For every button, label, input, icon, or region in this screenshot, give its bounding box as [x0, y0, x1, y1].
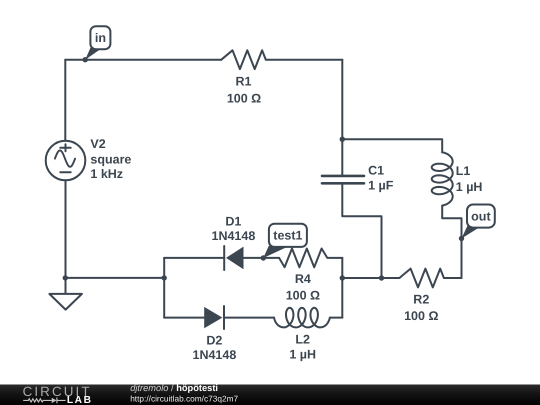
svg-text:LAB: LAB	[67, 395, 93, 405]
svg-text:1 µF: 1 µF	[368, 179, 394, 193]
svg-text:100 Ω: 100 Ω	[404, 309, 438, 323]
svg-text:out: out	[471, 209, 491, 223]
svg-text:1N4148: 1N4148	[212, 229, 256, 243]
svg-text:R4: R4	[295, 272, 311, 286]
svg-text:http://circuitlab.com/c73q2m7: http://circuitlab.com/c73q2m7	[130, 394, 238, 404]
svg-text:1 µH: 1 µH	[456, 180, 483, 194]
svg-text:100 Ω: 100 Ω	[227, 91, 261, 105]
svg-text:1N4148: 1N4148	[193, 348, 237, 362]
svg-text:D2: D2	[206, 333, 222, 347]
svg-text:L2: L2	[295, 333, 310, 347]
svg-text:test1: test1	[273, 229, 302, 243]
svg-text:L1: L1	[456, 164, 471, 178]
svg-text:1 kHz: 1 kHz	[90, 167, 123, 181]
svg-text:1 µH: 1 µH	[289, 348, 316, 362]
svg-text:R1: R1	[236, 75, 252, 89]
svg-text:square: square	[90, 153, 131, 167]
svg-text:100 Ω: 100 Ω	[286, 289, 320, 303]
svg-text:djtremolo / höpötesti: djtremolo / höpötesti	[130, 383, 218, 393]
svg-text:R2: R2	[413, 293, 429, 307]
svg-text:D1: D1	[225, 214, 241, 228]
svg-text:C1: C1	[368, 164, 384, 178]
svg-text:in: in	[95, 31, 106, 45]
svg-text:V2: V2	[90, 137, 105, 151]
